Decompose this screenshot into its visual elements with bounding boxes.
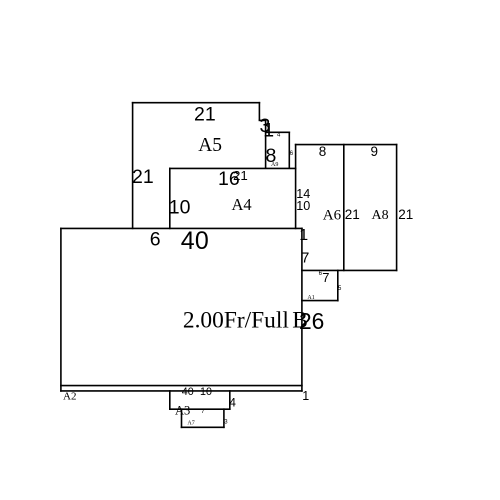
svg-text:6: 6 <box>150 228 161 250</box>
svg-text:4: 4 <box>277 133 281 139</box>
wall A7 left <box>181 408 183 428</box>
wall A4 left <box>169 168 171 230</box>
wall step vertical <box>265 120 267 169</box>
wall main right <box>301 228 303 392</box>
wall A3 left <box>169 390 171 410</box>
svg-text:A4: A4 <box>232 195 252 214</box>
wall A9 right <box>288 132 290 169</box>
svg-text:8: 8 <box>319 144 327 159</box>
svg-text:7: 7 <box>201 409 205 415</box>
wall main bottom <box>60 385 303 387</box>
wall step horizontal <box>259 119 267 121</box>
wall A6 A8 divider <box>343 144 345 271</box>
wall A9 top <box>265 131 290 133</box>
svg-text:10: 10 <box>296 199 310 213</box>
wall A3 right <box>229 390 231 410</box>
wall A4 top <box>169 167 296 169</box>
svg-text:3: 3 <box>224 420 228 426</box>
wall A5 left <box>132 102 134 229</box>
wall A6 left <box>295 144 297 229</box>
svg-text:21: 21 <box>132 166 154 188</box>
wall main top <box>60 227 303 229</box>
svg-text:A2: A2 <box>63 391 76 403</box>
svg-text:7: 7 <box>301 251 309 267</box>
svg-text:9: 9 <box>371 144 379 159</box>
wall A2 deck bottom <box>60 390 303 392</box>
wall A7 right <box>223 408 225 428</box>
svg-text:A8: A8 <box>372 208 389 223</box>
svg-text:A9: A9 <box>271 162 278 168</box>
svg-text:7: 7 <box>322 270 329 285</box>
wall main left <box>60 228 62 392</box>
svg-text:21: 21 <box>398 207 413 222</box>
wall A7 bottom <box>181 426 225 428</box>
svg-text:2.00Fr/Full: 2.00Fr/Full <box>183 308 289 334</box>
svg-text:6: 6 <box>290 151 294 157</box>
svg-text:4: 4 <box>229 396 236 410</box>
svg-text:40: 40 <box>181 227 209 255</box>
svg-text:5: 5 <box>338 286 342 292</box>
svg-text:A6: A6 <box>323 208 342 224</box>
svg-text:1: 1 <box>302 389 309 403</box>
svg-text:21: 21 <box>194 104 216 126</box>
wall A1 bottom <box>301 300 339 302</box>
svg-text:21: 21 <box>345 207 360 222</box>
wall A8 right <box>396 144 398 271</box>
wall A1 right <box>337 270 339 302</box>
svg-text:A7: A7 <box>187 421 194 427</box>
svg-text:40: 40 <box>182 386 194 398</box>
svg-text:A5: A5 <box>198 135 222 156</box>
wall A3 bottom <box>169 408 231 410</box>
svg-text:26: 26 <box>299 308 324 334</box>
svg-text:10: 10 <box>169 197 191 219</box>
svg-text:1: 1 <box>299 227 308 244</box>
svg-text:1: 1 <box>263 120 274 142</box>
wall A6 A8 bottom <box>301 269 397 271</box>
svg-text:10: 10 <box>200 386 212 398</box>
wall A5 top <box>132 102 260 104</box>
wall A6 A8 top <box>295 144 398 146</box>
wall A5 right upper <box>258 102 260 121</box>
svg-text:21: 21 <box>233 168 248 183</box>
svg-text:A1: A1 <box>307 295 314 301</box>
svg-text:A3: A3 <box>175 403 190 417</box>
